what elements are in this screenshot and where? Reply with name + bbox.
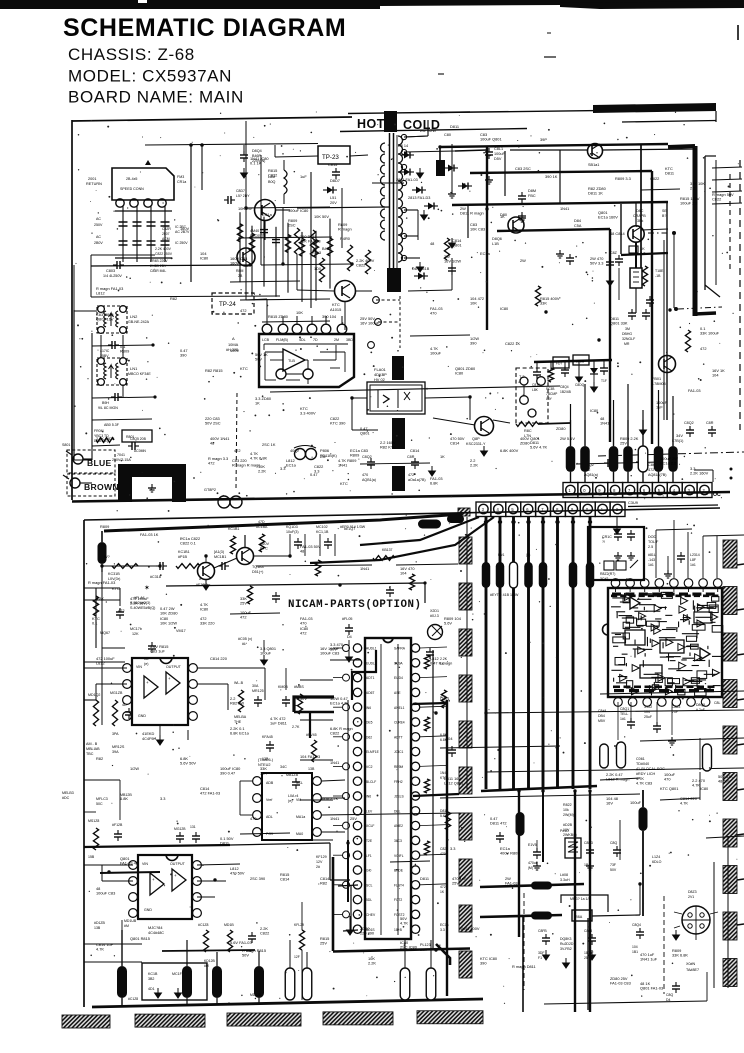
svg-text:#C1Z8: #C1Z8 bbox=[198, 923, 209, 927]
svg-text:TLB: TLB bbox=[288, 359, 295, 363]
svg-text:KSC2331-Y: KSC2331-Y bbox=[466, 442, 486, 446]
opto bottom wires bbox=[352, 397, 367, 399]
wire fb bbox=[510, 149, 587, 151]
r103 bbox=[176, 564, 200, 569]
wire y916 cont bbox=[592, 915, 640, 916]
svg-text:SCL: SCL bbox=[366, 883, 373, 887]
svg-text:2.2K C822: 2.2K C822 bbox=[96, 436, 114, 441]
svg-text:TOLIF: TOLIF bbox=[648, 540, 659, 544]
svg-text:IN6: IN6 bbox=[366, 706, 371, 710]
nicam left wires bbox=[300, 679, 333, 681]
svg-text:ANEL1: ANEL1 bbox=[394, 706, 405, 710]
thick wire x332 bbox=[332, 857, 335, 951]
svg-text:L8Y: L8Y bbox=[546, 397, 553, 401]
transistor Q805 bbox=[659, 356, 676, 373]
svg-text:4DL: 4DL bbox=[299, 338, 306, 342]
harness continuation x590 bbox=[589, 791, 591, 1012]
cap c820 bbox=[448, 267, 456, 269]
cap 640 935 bbox=[636, 931, 644, 933]
svg-text:MODEL: CX5937AN: MODEL: CX5937AN bbox=[68, 67, 232, 86]
svg-text:10uF(3): 10uF(3) bbox=[286, 530, 299, 534]
svg-text:TBC: TBC bbox=[86, 752, 94, 756]
svg-text:D84: D84 bbox=[574, 219, 581, 223]
svg-text:6.8K: 6.8K bbox=[430, 481, 438, 486]
svg-text:EC1a 4.7K: EC1a 4.7K bbox=[330, 701, 349, 706]
right hatched shield column bbox=[723, 540, 737, 568]
svg-text:R8C: R8C bbox=[524, 429, 532, 433]
svg-text:R82: R82 bbox=[170, 296, 177, 301]
svg-text:2.2K 160V: 2.2K 160V bbox=[690, 471, 709, 476]
svg-text:R822: R822 bbox=[563, 803, 572, 807]
diode pair extra bbox=[448, 165, 454, 172]
svg-text:L8F: L8F bbox=[690, 558, 696, 562]
svg-text:470: 470 bbox=[664, 777, 671, 782]
svg-text:7BCMP: 7BCMP bbox=[546, 392, 558, 396]
opto south wires bbox=[351, 399, 353, 430]
svg-text:2B-4x5: 2B-4x5 bbox=[126, 177, 137, 181]
svg-text:7041: 7041 bbox=[117, 453, 125, 457]
svg-text:ZD80: ZD80 bbox=[520, 441, 530, 446]
q102 wires bbox=[214, 558, 237, 568]
fuse resistor box bbox=[92, 419, 152, 420]
svg-text:50V: 50V bbox=[300, 696, 307, 701]
svg-text:C8#3: C8#3 bbox=[672, 705, 680, 709]
svg-text:MA1a: MA1a bbox=[296, 815, 305, 819]
svg-text:D4: D4 bbox=[666, 998, 671, 1002]
svg-text:R809: R809 bbox=[100, 524, 109, 529]
svg-text:MD1Q2: MD1Q2 bbox=[88, 693, 100, 697]
svg-text:KTC: KTC bbox=[240, 366, 248, 371]
svg-text:MELBA: MELBA bbox=[234, 715, 247, 719]
svg-text:MFG? 1a 1/2: MFG? 1a 1/2 bbox=[570, 897, 590, 901]
svg-text:470 50V: 470 50V bbox=[230, 871, 245, 876]
audio ic pin texture bottom bbox=[613, 686, 620, 689]
svg-text:3.3: 3.3 bbox=[160, 796, 165, 801]
svg-text:MC17b: MC17b bbox=[130, 627, 142, 631]
dash-dot y233 bbox=[648, 232, 670, 234]
svg-text:50V: 50V bbox=[255, 357, 262, 362]
hv bus top bbox=[440, 144, 668, 147]
svg-text:KC1B: KC1B bbox=[148, 972, 158, 976]
svg-text:2SC 1K: 2SC 1K bbox=[262, 442, 276, 447]
svg-text:6.8K 400V: 6.8K 400V bbox=[500, 448, 519, 453]
thick h wire y872 bbox=[100, 872, 160, 873]
svg-text:|M|: |M| bbox=[528, 866, 533, 870]
svg-text:100uF: 100uF bbox=[260, 651, 272, 656]
audio IC pin band bbox=[612, 593, 621, 596]
svg-text:AC: AC bbox=[96, 217, 101, 221]
svg-text:5DL: 5DL bbox=[366, 898, 372, 902]
hang gnd d bbox=[578, 361, 580, 372]
transformer T801 core lines bbox=[389, 133, 391, 292]
svg-text:KTC: KTC bbox=[112, 586, 120, 591]
svg-text:OC: OC bbox=[713, 492, 721, 498]
wire hub left bbox=[84, 779, 120, 781]
secondary rail thick right bbox=[455, 150, 487, 151]
svg-text:EC1a: EC1a bbox=[286, 463, 297, 468]
svg-text:SCL: SCL bbox=[296, 781, 303, 785]
rbox 573 916 bbox=[572, 910, 592, 921]
svg-text:33K 6.8K: 33K 6.8K bbox=[672, 953, 688, 958]
svg-text:R82: R82 bbox=[320, 881, 327, 886]
svg-text:MBLIAB: MBLIAB bbox=[86, 747, 100, 751]
svg-text:2.2K: 2.2K bbox=[470, 463, 478, 468]
svg-text:33K 220: 33K 220 bbox=[200, 621, 215, 626]
svg-text:3B2: 3B2 bbox=[148, 977, 154, 981]
dash-dot y309 bbox=[678, 307, 722, 309]
capsule h 886 bbox=[531, 882, 552, 890]
svg-text:R809: R809 bbox=[350, 453, 359, 458]
svg-text:131: 131 bbox=[190, 825, 196, 829]
svg-text:48: 48 bbox=[430, 241, 434, 246]
svg-text:✶: ✶ bbox=[144, 584, 150, 592]
middle IC103 pins bbox=[253, 777, 262, 786]
bus y203 bbox=[452, 202, 668, 205]
svg-text:1N41 1uF: 1N41 1uF bbox=[640, 957, 658, 962]
svg-text:R8Z2(R7): R8Z2(R7) bbox=[600, 572, 615, 576]
svg-text:KM0B: KM0B bbox=[278, 685, 288, 689]
wire y361 bbox=[534, 360, 612, 362]
bottom outline capsules bbox=[285, 968, 295, 1000]
svg-text:1K: 1K bbox=[255, 401, 260, 406]
small hatch block 2d02 bbox=[458, 508, 470, 516]
svg-text:MS1Z8: MS1Z8 bbox=[88, 819, 99, 823]
svg-text:S801: S801 bbox=[62, 443, 70, 447]
svg-text:BOARD NAME: MAIN: BOARD NAME: MAIN bbox=[68, 88, 244, 107]
svg-text:C8L1: C8L1 bbox=[494, 147, 503, 151]
svg-text:10K: 10K bbox=[296, 310, 303, 315]
svg-text:L812: L812 bbox=[96, 661, 105, 666]
svg-text:R809 3.3: R809 3.3 bbox=[615, 176, 631, 181]
upper mid extra verticals bbox=[467, 205, 469, 238]
svg-text:50V: 50V bbox=[330, 647, 337, 652]
svg-text:2813 FA1-D3: 2813 FA1-D3 bbox=[408, 196, 430, 200]
svg-text:2#: 2# bbox=[316, 865, 320, 869]
svg-text:D8C: D8C bbox=[636, 209, 644, 213]
lower left entry capsule bbox=[98, 542, 107, 564]
svg-text:LF1: LF1 bbox=[366, 854, 372, 858]
svg-text:1N41: 1N41 bbox=[560, 206, 569, 211]
mid dash wire bbox=[256, 565, 372, 566]
cap 590 850 bbox=[586, 849, 594, 851]
svg-text:LN1: LN1 bbox=[130, 366, 138, 371]
svg-text:2M: 2M bbox=[334, 338, 339, 342]
mosfet Q802 circle bbox=[255, 200, 276, 221]
svg-text:2001: 2001 bbox=[88, 177, 96, 181]
svg-text:400V 2.2K: 400V 2.2K bbox=[320, 796, 339, 801]
svg-text:Ru2D2D: Ru2D2D bbox=[560, 942, 574, 946]
transformer T801 bottom black block bbox=[387, 268, 401, 292]
svg-text:33K 100uF: 33K 100uF bbox=[700, 331, 720, 336]
audio IC top pins bbox=[611, 579, 620, 588]
degauss coil connector box bbox=[112, 168, 174, 200]
svg-text:1N41 400V: 1N41 400V bbox=[460, 926, 480, 931]
r121 r122 bbox=[93, 700, 98, 726]
svg-text:C822: C822 bbox=[712, 197, 721, 202]
k105 gnd bbox=[348, 640, 350, 652]
resistor R807 bbox=[310, 230, 315, 256]
svg-text:DQ8K3: DQ8K3 bbox=[560, 937, 572, 941]
svg-text:T2E: T2E bbox=[366, 839, 373, 843]
middle IC103 box bbox=[262, 773, 312, 840]
svg-text:T1F: T1F bbox=[601, 379, 607, 383]
right bracket box bbox=[704, 156, 706, 290]
wfl05 cap bbox=[345, 627, 353, 629]
svg-text:C8DQ: C8DQ bbox=[575, 383, 585, 387]
svg-text:1K: 1K bbox=[440, 454, 445, 459]
bottom left wire mesh bbox=[84, 943, 142, 945]
svg-text:C061: C061 bbox=[636, 757, 645, 761]
medium box small blocks bbox=[604, 561, 614, 570]
svg-text:#81L: #81L bbox=[648, 553, 656, 557]
svg-text:C8FD: C8FD bbox=[584, 841, 594, 845]
svg-text:C8#4: C8#4 bbox=[598, 709, 606, 713]
svg-text:100uF 2.2: 100uF 2.2 bbox=[680, 201, 698, 206]
svg-text:XCLF: XCLF bbox=[366, 824, 374, 828]
svg-text:472: 472 bbox=[408, 473, 414, 477]
svg-text:AB0 5.3F: AB0 5.3F bbox=[104, 423, 120, 427]
gnd marks ur bbox=[488, 176, 490, 180]
svg-text:104: 104 bbox=[632, 945, 638, 949]
svg-text:DEL: DEL bbox=[394, 809, 401, 813]
svg-text:TELL: TELL bbox=[620, 712, 628, 716]
svg-text:4.7K C83: 4.7K C83 bbox=[636, 781, 652, 786]
svg-text:BADE: BADE bbox=[394, 869, 404, 873]
svg-text:PL123: PL123 bbox=[420, 943, 431, 947]
upper frame band bottom line bbox=[340, 129, 527, 132]
svg-text:C8Q: C8Q bbox=[666, 993, 673, 997]
svg-text:25BV: 25BV bbox=[100, 354, 109, 358]
svg-text:4M40: 4M40 bbox=[250, 229, 259, 233]
svg-text:3.3: 3.3 bbox=[440, 928, 445, 932]
svg-text:L#08: L#08 bbox=[560, 873, 568, 877]
cap C816 bbox=[518, 195, 526, 197]
svg-text:L812 Q801: L812 Q801 bbox=[444, 781, 463, 786]
svg-text:472 FA1-03: 472 FA1-03 bbox=[200, 791, 220, 796]
test point box TP-23 bbox=[318, 146, 350, 164]
svg-text:100uF: 100uF bbox=[494, 152, 505, 156]
svg-text:S.40WE5#B(Q): S.40WE5#B(Q) bbox=[130, 606, 155, 610]
transistor Q801 circle bbox=[335, 281, 356, 302]
svg-text:DBHG: DBHG bbox=[622, 332, 632, 336]
r to q804 bbox=[516, 422, 538, 427]
svg-text:R magn FA1-03: R magn FA1-03 bbox=[88, 580, 115, 585]
svg-text:DB4: DB4 bbox=[598, 714, 605, 718]
ic103 right wires bbox=[322, 780, 345, 781]
medium box y527 bbox=[588, 527, 644, 580]
wire mid right bbox=[408, 290, 452, 291]
svg-text:1N41: 1N41 bbox=[338, 463, 347, 468]
svg-text:FB01: FB01 bbox=[652, 377, 661, 381]
svg-text:2SC 390: 2SC 390 bbox=[250, 876, 266, 881]
outline capsule b bbox=[617, 742, 626, 768]
cn801 right hook bbox=[694, 469, 713, 471]
svg-text:M#1: M#1 bbox=[498, 553, 505, 557]
svg-text:1N41: 1N41 bbox=[360, 566, 369, 571]
svg-text:5.6V 4.7K: 5.6V 4.7K bbox=[530, 445, 547, 450]
svg-text:IN6: IN6 bbox=[366, 795, 371, 799]
svg-text:1uF D811: 1uF D811 bbox=[270, 721, 287, 726]
test point box TP-24 bbox=[212, 293, 254, 314]
svg-text:+: + bbox=[174, 873, 177, 878]
svg-text:D4: D4 bbox=[347, 635, 352, 639]
wire into q804 bbox=[433, 418, 475, 425]
svg-text:D811 1K: D811 1K bbox=[588, 191, 603, 196]
svg-text:MG1ZB: MG1ZB bbox=[110, 691, 123, 695]
svg-text:KC1B1: KC1B1 bbox=[178, 550, 190, 554]
svg-text:AD6T: AD6T bbox=[366, 691, 374, 695]
svg-text:D8M: D8M bbox=[528, 189, 536, 193]
audio IC interior detail bbox=[643, 607, 645, 611]
svg-text:EC1a: EC1a bbox=[262, 212, 273, 217]
svg-text:ZD80: ZD80 bbox=[556, 426, 566, 431]
margin dots bbox=[730, 468, 733, 471]
black dashed bar seg1 bbox=[392, 356, 404, 380]
svg-text:#M: #M bbox=[124, 924, 129, 928]
rectifier diode D814 bbox=[404, 152, 410, 159]
h wire y771 bbox=[486, 768, 744, 772]
svg-text:D8Z3: D8Z3 bbox=[688, 890, 697, 894]
svg-text:1uF: 1uF bbox=[656, 405, 663, 410]
svg-text:3.3 400V: 3.3 400V bbox=[300, 411, 316, 416]
svg-text:T-2: T-2 bbox=[519, 375, 525, 379]
svg-text:1N41: 1N41 bbox=[330, 760, 339, 765]
svg-text:#L: #L bbox=[242, 642, 246, 646]
mid bottom components bbox=[299, 930, 304, 950]
svg-text:1N41: 1N41 bbox=[600, 421, 609, 426]
svg-text:30A: 30A bbox=[252, 684, 259, 688]
wire x641 branches bbox=[641, 189, 680, 190]
svg-text:#EP0 91# 1/3W: #EP0 91# 1/3W bbox=[340, 525, 366, 529]
svg-text:EC1a: EC1a bbox=[440, 923, 449, 927]
svg-text:C8Q4: C8Q4 bbox=[560, 385, 569, 389]
cap c121 bbox=[125, 711, 133, 713]
svg-text:FA1-03 1K: FA1-03 1K bbox=[140, 532, 159, 537]
coil L808 bbox=[284, 170, 287, 194]
svg-text:C8D7: C8D7 bbox=[236, 189, 245, 193]
ferrite bead circle bbox=[588, 144, 603, 159]
cap C812 area bbox=[451, 144, 453, 190]
scan speckle noise bbox=[569, 905, 571, 907]
svg-text:?!: ?! bbox=[602, 540, 605, 544]
harness junction blobs bbox=[484, 520, 488, 524]
svg-text:470uF: 470uF bbox=[528, 861, 538, 865]
svg-text:25V: 25V bbox=[452, 881, 459, 886]
capsule x643 low bbox=[639, 807, 648, 831]
svg-text:L812: L812 bbox=[96, 291, 105, 296]
page top scanner bar bbox=[0, 0, 380, 9]
svg-text:Q8P: Q8P bbox=[472, 437, 480, 441]
svg-text:AM - B: AM - B bbox=[86, 742, 98, 746]
mains plug brown bbox=[67, 474, 115, 496]
thick wire vx348 bbox=[347, 840, 349, 902]
resistor R810 bbox=[365, 250, 370, 274]
svg-text:IC 250V: IC 250V bbox=[175, 241, 188, 245]
right margin tick dashes bbox=[737, 564, 744, 565]
svg-text:#C318: #C318 bbox=[150, 575, 161, 579]
svg-text:L1B: L1B bbox=[492, 242, 499, 246]
resistor R808 bbox=[347, 245, 352, 271]
IC801 pins bbox=[262, 324, 272, 334]
r mel bbox=[311, 740, 316, 762]
svg-text:LN2: LN2 bbox=[130, 314, 138, 319]
svg-text:KTC: KTC bbox=[340, 481, 348, 486]
IC801 opamp triangle bbox=[283, 349, 305, 371]
svg-text:MQ67: MQ67 bbox=[100, 631, 110, 635]
svg-text:472: 472 bbox=[240, 615, 247, 620]
svg-text:2.2K 400V: 2.2K 400V bbox=[155, 247, 172, 251]
svg-text:FA1-03 C83: FA1-03 C83 bbox=[610, 981, 631, 986]
svg-text:CR1C: CR1C bbox=[602, 535, 612, 539]
rectifier diode D813 bbox=[404, 169, 410, 176]
inner line capsule b bbox=[447, 515, 464, 523]
svg-text:#FL05: #FL05 bbox=[342, 617, 352, 621]
svg-text:FDT: FDT bbox=[556, 362, 562, 366]
svg-text:#C1BA: #C1BA bbox=[256, 525, 268, 529]
svg-text:AQ81(a): AQ81(a) bbox=[584, 473, 598, 477]
dash-dot sync line bbox=[598, 452, 744, 456]
svg-text:70F: 70F bbox=[672, 710, 678, 714]
svg-text:CLRE4: CLRE4 bbox=[394, 721, 405, 725]
svg-text:400V R809: 400V R809 bbox=[500, 851, 519, 856]
NICAM pin tag circles bbox=[343, 645, 350, 652]
svg-text:3.3: 3.3 bbox=[314, 469, 319, 474]
svg-text:RETURN: RETURN bbox=[86, 182, 102, 186]
capacitor C803 bbox=[91, 265, 250, 266]
svg-text:100uF C83: 100uF C83 bbox=[96, 891, 115, 896]
svg-text:KD12B: KD12B bbox=[204, 959, 215, 963]
svg-text:12K: 12K bbox=[132, 632, 139, 636]
svg-text:3.3: 3.3 bbox=[450, 846, 455, 851]
svg-text:MJC?84: MJC?84 bbox=[148, 925, 163, 930]
capsule h 916 bbox=[531, 912, 552, 920]
svg-text:KFL29: KFL29 bbox=[294, 923, 304, 927]
svg-text:2WKB(r): 2WKB(r) bbox=[563, 833, 577, 837]
svg-text:J2ELS: J2ELS bbox=[394, 795, 405, 799]
degauss connector pins bbox=[116, 199, 124, 207]
svg-text:0.1: 0.1 bbox=[92, 621, 97, 626]
svg-text:MA0: MA0 bbox=[296, 832, 303, 836]
transistor Q102 bbox=[237, 548, 254, 565]
svg-text:D8Q4: D8Q4 bbox=[252, 149, 262, 153]
svg-text:KC1B1: KC1B1 bbox=[228, 527, 239, 531]
svg-text:LCB: LCB bbox=[262, 338, 270, 342]
svg-text:MC1B1: MC1B1 bbox=[214, 555, 226, 559]
svg-text:CR1a: CR1a bbox=[177, 180, 186, 184]
svg-text:MG12B: MG12B bbox=[174, 827, 186, 831]
svg-text:10K 50V: 10K 50V bbox=[314, 214, 329, 219]
svg-text:C822: C822 bbox=[356, 263, 365, 268]
lower frame left border bbox=[83, 520, 85, 1007]
svg-text:#FV45: #FV45 bbox=[306, 733, 317, 737]
svg-text:FBC: FBC bbox=[528, 194, 536, 198]
svg-text:C822: C822 bbox=[440, 847, 448, 851]
capacitor C815 bbox=[332, 171, 340, 173]
svg-text:IC80: IC80 bbox=[500, 306, 509, 311]
cap row mid bbox=[176, 835, 184, 837]
svg-text:100uF IC80: 100uF IC80 bbox=[288, 208, 309, 213]
input rc bbox=[102, 565, 160, 567]
q806 stem bbox=[635, 242, 637, 268]
svg-text:FA1-03 48: FA1-03 48 bbox=[120, 861, 138, 866]
svg-text:R8A: R8A bbox=[575, 915, 583, 919]
svg-text:TD#040: TD#040 bbox=[636, 762, 649, 766]
svg-text:D8 14: D8 14 bbox=[398, 144, 408, 148]
svg-text:R82 2W: R82 2W bbox=[230, 701, 244, 706]
h wire y712 bbox=[486, 710, 744, 713]
svg-text:IC80: IC80 bbox=[200, 256, 209, 261]
resistor R806 bbox=[294, 228, 299, 254]
